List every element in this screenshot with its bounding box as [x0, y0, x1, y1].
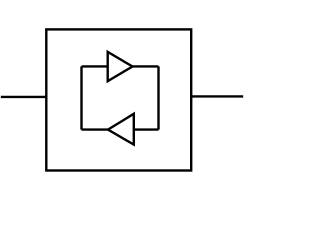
wire left lead	[1, 96, 47, 98]
wire right lead	[191, 95, 243, 97]
wire loop left side	[80, 66, 82, 129]
amplifier A2	[108, 114, 134, 145]
wire loop bottom segment	[134, 128, 159, 130]
wire A2 output to loop left side	[82, 128, 109, 130]
wire loop top segment	[82, 65, 108, 67]
wire A1 output to loop right side	[133, 65, 159, 67]
amplifier A1	[108, 52, 133, 81]
repeater box U1	[46, 29, 191, 170]
wire loop right side	[157, 66, 159, 129]
